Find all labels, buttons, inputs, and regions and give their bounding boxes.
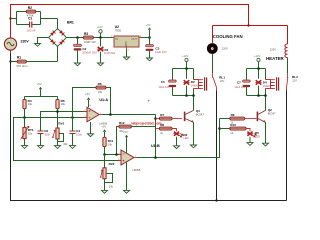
svg-text:10uF 16V: 10uF 16V — [234, 85, 246, 89]
svg-text:220V: 220V — [270, 48, 276, 52]
AC source V1 220V — [4, 35, 16, 52]
node junction U1A out R6 — [109, 113, 112, 116]
resistor R6 feedback — [73, 86, 111, 117]
bridge rectifier BR1 — [49, 29, 67, 47]
svg-text:10k: 10k — [109, 184, 114, 188]
svg-text:R2: R2 — [28, 6, 32, 10]
wire bridge bottom to R1 — [11, 47, 58, 62]
wire neutral black — [11, 53, 287, 201]
potentiometer RV1 — [52, 128, 63, 146]
op-amp U1:B — [118, 137, 137, 190]
ground Q1 — [191, 145, 197, 148]
svg-text:R10: R10 — [230, 123, 236, 127]
ground D1 — [98, 62, 104, 66]
ground D5 — [247, 143, 253, 146]
ground RV1 — [55, 146, 61, 149]
svg-text:R3: R3 — [84, 32, 88, 36]
capacitor C6 — [38, 131, 44, 146]
power +5V U1A — [85, 92, 90, 100]
node junction +12V bus — [185, 67, 188, 70]
relay switch RL2 — [287, 73, 289, 90]
capacitor C3 polarized — [146, 38, 154, 59]
wire relay1 bus — [173, 69, 194, 96]
svg-text:10k: 10k — [98, 90, 103, 94]
node junction R11 minus — [103, 153, 106, 156]
svg-text:BR1: BR1 — [67, 20, 74, 24]
resistor R7 — [156, 117, 182, 120]
transistor Q1 — [184, 96, 194, 146]
svg-text:R9: R9 — [231, 113, 235, 117]
svg-text:COOLING FAN: COOLING FAN — [213, 34, 243, 39]
LED D5 — [247, 132, 256, 143]
wire U2 output — [141, 37, 150, 39]
svg-text:12V: 12V — [220, 79, 225, 83]
svg-text:220V: 220V — [222, 46, 228, 50]
svg-text:HEATER: HEATER — [266, 56, 285, 61]
relay switch RL1 — [212, 73, 217, 90]
svg-text:1N4742A: 1N4742A — [104, 51, 115, 55]
node junction U2 out — [148, 36, 151, 39]
svg-text:100n: 100n — [44, 133, 50, 137]
svg-text:C3: C3 — [155, 46, 159, 50]
wire R2 C1 network — [11, 12, 58, 29]
transistor Q2 — [257, 96, 266, 144]
svg-text:470 ohm: 470 ohm — [16, 64, 28, 68]
ground RT1 — [22, 146, 28, 149]
thermistor RT1 — [21, 118, 29, 146]
ground C3 — [147, 58, 153, 61]
svg-text:R1: R1 — [17, 55, 21, 59]
power +5V above R11 — [101, 125, 106, 138]
svg-text:Q1: Q1 — [196, 109, 200, 113]
svg-text:LED: LED — [183, 136, 188, 140]
power +5V U1B — [123, 130, 128, 137]
wire U1B output to right driver — [137, 119, 220, 158]
svg-text:+12V: +12V — [97, 25, 103, 29]
svg-text:100R 1W: 100R 1W — [84, 40, 96, 44]
SW diode — [50, 39, 55, 44]
svg-text:C4: C4 — [76, 129, 80, 133]
svg-text:100 nF: 100 nF — [27, 28, 36, 32]
svg-text:OUT: OUT — [131, 37, 137, 41]
svg-text:RV2: RV2 — [109, 162, 115, 166]
resistor R8 — [156, 127, 177, 131]
node junction C4 node T — [71, 116, 74, 119]
ground C6 — [38, 146, 44, 149]
node junction D2 bottom — [185, 94, 188, 97]
wire bridge left to ground — [38, 38, 49, 44]
node junction R12 output — [154, 156, 157, 159]
resistor R5 — [56, 100, 59, 128]
ground U2 — [124, 57, 130, 60]
heater coil — [285, 44, 288, 58]
svg-text:U1:B: U1:B — [151, 144, 160, 148]
node junction R5 node S — [56, 110, 59, 113]
wire node S to op-amp — [41, 112, 85, 132]
wire +5V tee to R4 R5 — [25, 97, 58, 100]
ground U1B — [124, 190, 130, 193]
svg-text:1000uF 25V: 1000uF 25V — [82, 51, 97, 55]
potentiometer RV2 — [100, 155, 113, 191]
svg-text:C1: C1 — [28, 16, 32, 20]
svg-text:BC547: BC547 — [196, 113, 204, 117]
power +12V node left — [182, 54, 189, 69]
svg-text:D1: D1 — [105, 48, 109, 52]
relay coil RL1 — [194, 77, 207, 90]
svg-text:C7: C7 — [237, 80, 241, 84]
svg-text:+12V: +12V — [254, 54, 261, 58]
ground U1A — [88, 134, 94, 137]
node junction rail D1 — [99, 36, 102, 39]
svg-text:IN: IN — [115, 37, 118, 41]
wire U1B minus input — [105, 154, 119, 156]
resistor R11 — [103, 137, 106, 154]
svg-text:R4: R4 — [28, 99, 32, 103]
svg-text:+5V: +5V — [85, 92, 90, 96]
node junction R7 tap — [154, 117, 157, 120]
node junction Q1 collector bus — [192, 94, 195, 97]
node junction on red wire at fan heater tee — [247, 24, 249, 26]
pin numbers U1B — [118, 153, 136, 161]
diode D2 flyback — [184, 80, 190, 84]
node junction R12 minus — [115, 153, 118, 156]
op-amp U1:A — [84, 100, 101, 134]
node junction D4 bottom — [257, 94, 260, 97]
LED D3 — [174, 132, 183, 146]
svg-text:10k: 10k — [28, 102, 33, 106]
resistor R12 feedback U1B — [117, 125, 156, 157]
svg-text:D2: D2 — [191, 80, 195, 84]
svg-text:+5V: +5V — [123, 130, 128, 134]
ground D3 — [174, 146, 180, 149]
svg-text:D5: D5 — [255, 131, 259, 135]
svg-text:10k: 10k — [63, 142, 68, 146]
ground RV2 — [102, 190, 108, 193]
SE diode — [59, 40, 64, 45]
node junction R10 tap — [218, 127, 221, 130]
wire U1A output — [102, 115, 156, 129]
fan motor icon — [207, 43, 218, 54]
svg-text:C5: C5 — [161, 80, 165, 84]
power +12V tap on rail — [97, 25, 103, 37]
svg-text:220V: 220V — [21, 40, 30, 44]
svg-text:+12V: +12V — [182, 54, 189, 58]
heater wire down to RL2 switch — [287, 58, 289, 74]
ground Q2 — [263, 143, 269, 146]
svg-text:+5V: +5V — [37, 82, 42, 86]
resistor R9 — [220, 117, 257, 120]
svg-text:C6: C6 — [44, 129, 48, 133]
diode D4 flyback — [256, 80, 262, 84]
wire DC rail — [67, 37, 113, 39]
pin numbers U1A — [84, 105, 102, 127]
svg-text:100n: 100n — [76, 133, 82, 137]
resistor R2 — [26, 10, 35, 13]
fan wire down to RL1 switch — [212, 54, 214, 73]
svg-text:LM358: LM358 — [132, 168, 140, 172]
svg-text:7805: 7805 — [115, 28, 122, 32]
svg-text:D3: D3 — [183, 133, 187, 137]
diode D1 zener — [97, 38, 103, 62]
svg-text:LED: LED — [255, 135, 260, 139]
svg-text:+5V: +5V — [101, 125, 106, 129]
node junction Q2 collector bus — [264, 94, 267, 97]
svg-text:Q2: Q2 — [268, 108, 272, 112]
wire relay2 bus — [247, 69, 266, 96]
svg-text:10k: 10k — [108, 142, 113, 146]
power +5V above R4 R5 — [37, 82, 43, 97]
svg-text:U1:A: U1:A — [99, 98, 108, 102]
resistor R10 — [220, 127, 251, 131]
ground C2 — [75, 62, 81, 66]
regulator U2 7805 — [113, 36, 141, 50]
node junction +12V bus right — [257, 67, 260, 70]
svg-text:GND: GND — [124, 42, 128, 48]
svg-text:R11: R11 — [108, 139, 114, 143]
svg-text:RT1: RT1 — [28, 128, 34, 132]
NW diode — [50, 31, 55, 36]
capacitor C4 — [70, 118, 76, 146]
svg-text:10uF 16V: 10uF 16V — [158, 85, 170, 89]
svg-text:R12: R12 — [119, 121, 125, 125]
NE diode — [59, 30, 64, 35]
svg-text:12V: 12V — [292, 78, 297, 82]
svg-text:BC547: BC547 — [268, 112, 276, 116]
svg-text:R5: R5 — [61, 99, 65, 103]
svg-text:R7: R7 — [160, 113, 164, 117]
resistor R1 — [17, 60, 26, 63]
svg-text:10uF 16V: 10uF 16V — [155, 50, 167, 54]
power +5V at U2 out — [146, 23, 152, 37]
node junction neutral R1 tap — [9, 60, 11, 62]
svg-text:*: * — [148, 100, 150, 106]
capacitor C5 polarized — [169, 80, 177, 87]
wire live red top — [11, 5, 288, 45]
relay coil RL2 — [266, 77, 279, 90]
svg-text:D4: D4 — [263, 80, 267, 84]
pin numbers U2 — [111, 36, 142, 52]
svg-text:10k: 10k — [28, 132, 33, 136]
node junction RT1 node T — [23, 116, 26, 119]
node junction red wire to R2 C1 — [9, 17, 11, 19]
capacitor C7 polarized — [243, 80, 251, 87]
svg-text:R6: R6 — [98, 82, 102, 86]
node junction neutral bottom — [215, 199, 217, 201]
node junction rail C2 — [76, 36, 79, 39]
resistor R3 — [83, 36, 93, 39]
resistor R4 — [23, 100, 26, 118]
wire U2 gnd pin — [126, 50, 128, 57]
svg-text:RV1: RV1 — [58, 122, 64, 126]
svg-text:RL2: RL2 — [292, 75, 298, 79]
ground C4 — [70, 146, 76, 149]
ground bridge — [35, 44, 41, 47]
capacitor C1 — [30, 22, 32, 28]
svg-text:labprojectsbd.com: labprojectsbd.com — [131, 121, 161, 125]
svg-text:C2: C2 — [82, 47, 86, 51]
power +12V node right — [254, 54, 261, 69]
wire node T to op-amp and loop to U1B — [14, 118, 119, 161]
capacitor C2 polarized — [74, 38, 82, 62]
svg-text:RL1: RL1 — [219, 76, 225, 80]
svg-text:+5V: +5V — [146, 23, 151, 27]
svg-text:10k: 10k — [61, 102, 66, 106]
